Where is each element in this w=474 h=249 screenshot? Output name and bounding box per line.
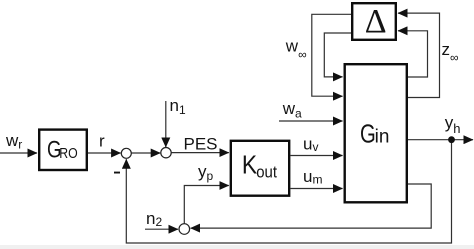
svg-text:PES: PES	[184, 135, 218, 154]
svg-text:Δ: Δ	[365, 3, 387, 40]
svg-text:in: in	[375, 127, 390, 148]
svg-text:RO: RO	[59, 145, 77, 161]
svg-text:out: out	[256, 164, 277, 182]
svg-text:G: G	[360, 119, 376, 148]
svg-text:r: r	[99, 132, 105, 151]
